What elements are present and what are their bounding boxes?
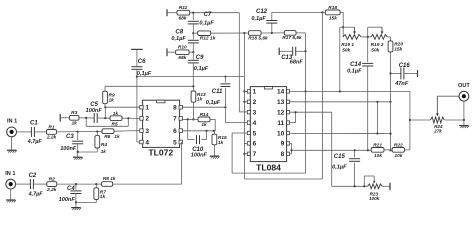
labels R5 xyxy=(112,111,119,128)
wire to TL084 pin6 xyxy=(244,142,247,144)
op-amp U2 TL084 xyxy=(247,87,289,173)
svg-text:100nF: 100nF xyxy=(59,197,76,203)
trimmer R23 wiper loop xyxy=(364,176,375,186)
wire TL072 pin6 to R15 xyxy=(182,130,215,132)
wire R9 bottom xyxy=(104,104,106,108)
svg-text:5: 5 xyxy=(253,130,257,137)
svg-text:R22: R22 xyxy=(394,142,403,148)
svg-text:R2: R2 xyxy=(49,177,55,183)
wire to TL084 pin2 xyxy=(244,101,247,103)
wire R14 right down to pin6 wire xyxy=(210,119,215,130)
svg-text:C7: C7 xyxy=(204,12,212,18)
wire R9 top to rail xyxy=(105,86,193,91)
svg-text:5: 5 xyxy=(173,139,177,146)
wire R23 row xyxy=(332,185,368,187)
wire R5 to node C and TL072 pin2 xyxy=(122,117,140,119)
potentiometer R19 2 wiper arrow xyxy=(381,27,384,34)
capacitor C8 xyxy=(171,29,198,43)
wire TL084 pin4 hook to V+ node xyxy=(225,107,247,122)
resistor R20 xyxy=(388,41,403,53)
wire C7 to R12 node xyxy=(192,24,194,34)
wire C3/R4 bottom to ground node xyxy=(77,148,98,153)
svg-text:C11: C11 xyxy=(212,89,223,95)
resistor R11 xyxy=(177,5,190,21)
capacitor C7 xyxy=(188,12,215,27)
resistor R10 xyxy=(176,45,190,61)
wire C13 node down to TL084 pin14 xyxy=(304,51,306,92)
svg-text:4,7µF: 4,7µF xyxy=(27,139,43,145)
svg-text:1k: 1k xyxy=(109,97,115,103)
wire TL072 pin8 (V+) to C11 node xyxy=(182,106,226,108)
resistor R5 xyxy=(110,116,122,121)
capacitor C4 xyxy=(59,184,82,203)
wire C12 top rail to R18 xyxy=(272,11,326,13)
wire C9 to rail y86 node xyxy=(192,63,194,86)
resistor R3 xyxy=(69,110,79,126)
svg-text:14: 14 xyxy=(277,89,285,96)
wire TL084 pin11 to pin12 wire xyxy=(290,111,297,123)
resistor R15 xyxy=(212,134,227,146)
resistor R9 xyxy=(103,91,115,104)
svg-text:R11: R11 xyxy=(179,5,188,11)
svg-text:C15: C15 xyxy=(334,154,346,160)
svg-text:100nF: 100nF xyxy=(86,108,103,114)
wire R13 bottom to pin7 wire xyxy=(192,102,194,120)
wire pin1 node to TL072 pin1 xyxy=(105,106,140,108)
svg-text:7: 7 xyxy=(173,116,177,123)
svg-text:1k: 1k xyxy=(201,122,207,128)
svg-text:6: 6 xyxy=(173,128,177,135)
svg-text:C2: C2 xyxy=(29,173,37,179)
svg-text:2,2k: 2,2k xyxy=(46,135,57,141)
wire loop B (pins 6,7 to top rail) xyxy=(244,12,322,179)
svg-text:R6: R6 xyxy=(104,134,110,140)
svg-text:1k: 1k xyxy=(113,111,119,117)
wire R19.2 wiper loop xyxy=(368,27,382,37)
capacitor C12 xyxy=(251,9,277,33)
svg-text:27k: 27k xyxy=(433,129,442,134)
capacitor C3 xyxy=(60,132,83,152)
svg-text:C5: C5 xyxy=(90,102,98,108)
svg-text:R21: R21 xyxy=(373,142,382,148)
wire to TL084 pin1 xyxy=(244,90,247,92)
svg-text:1k: 1k xyxy=(114,134,120,140)
ground (IN 1 B) xyxy=(6,189,16,203)
wire TL084 pin5 to loop A xyxy=(232,133,247,173)
svg-text:0,1µF: 0,1µF xyxy=(171,36,186,42)
svg-text:1k: 1k xyxy=(218,140,224,146)
wire V+ rail (C6 node to C11/TL084) xyxy=(137,76,245,78)
wire loop A (pin5 to pin14 node) xyxy=(232,91,305,173)
svg-text:68nF: 68nF xyxy=(290,60,304,66)
wire rect left vertical xyxy=(376,102,378,134)
wire T2 to R11 xyxy=(167,12,177,14)
wire TL084 pin14 to R19.1 vertical and R24 node xyxy=(290,90,410,92)
svg-text:0,1µF: 0,1µF xyxy=(251,16,266,22)
wire node M up to pin1 node xyxy=(104,106,106,118)
svg-text:R3: R3 xyxy=(71,110,77,116)
svg-text:R19 2: R19 2 xyxy=(371,42,384,48)
svg-text:100nF: 100nF xyxy=(60,146,77,152)
wire pin8/9 node to R21 xyxy=(292,149,372,151)
wire R21 to R22 xyxy=(384,149,392,151)
svg-text:R19 1: R19 1 xyxy=(341,42,354,48)
wire R11 bend down to TL084 pin3 xyxy=(239,13,247,112)
wire R2 to R8 (node with C4, R7) xyxy=(57,183,102,185)
potentiometer R19 1 wiper arrow xyxy=(353,27,356,34)
resistor R12 xyxy=(198,31,216,42)
wire bypass loop A-C xyxy=(86,118,128,126)
svg-text:TL072: TL072 xyxy=(148,148,173,158)
terminal (C13 left) xyxy=(278,48,280,55)
svg-text:0,1µF: 0,1µF xyxy=(332,165,347,171)
svg-text:R12 1k: R12 1k xyxy=(200,36,216,42)
capacitor C9 xyxy=(188,52,209,72)
wire to TL084 pin7 xyxy=(244,153,247,155)
svg-text:R18: R18 xyxy=(328,5,337,11)
resistor R13 xyxy=(191,91,206,102)
capacitor C10 (pin7 to pin6) xyxy=(188,119,208,158)
svg-text:4: 4 xyxy=(145,139,149,146)
wire R3 to node A xyxy=(79,117,94,119)
trimmer R23 xyxy=(368,184,383,201)
wire TL072 pin7 to R14 xyxy=(182,118,198,120)
ground (C3/R4) xyxy=(73,152,83,160)
resistor R14 xyxy=(198,112,210,128)
svg-text:68k: 68k xyxy=(178,16,186,22)
svg-text:6: 6 xyxy=(253,141,257,148)
labels R6 xyxy=(104,134,120,140)
resistor R1 xyxy=(46,124,57,140)
wire C2 to R2 xyxy=(33,183,46,185)
svg-text:3: 3 xyxy=(145,128,149,135)
svg-text:4: 4 xyxy=(253,120,257,127)
svg-text:0,1µF: 0,1µF xyxy=(194,66,209,72)
svg-text:0,1µF: 0,1µF xyxy=(206,100,221,106)
terminal (R10 input) xyxy=(166,48,168,56)
svg-text:7: 7 xyxy=(253,151,257,158)
svg-text:1: 1 xyxy=(145,105,149,112)
wire R17 to bend down xyxy=(296,33,307,52)
wire R16 to C12 node xyxy=(261,32,284,34)
wire R13 top to rail y86 xyxy=(192,85,194,91)
wire TL084 pin10 to rect node xyxy=(290,132,391,134)
svg-text:C4: C4 xyxy=(67,186,75,192)
svg-text:IN 1: IN 1 xyxy=(5,171,15,177)
svg-text:12: 12 xyxy=(277,110,285,117)
wire R20 down to R21/R22 junction xyxy=(389,52,391,151)
svg-text:OUT: OUT xyxy=(458,83,470,89)
wire R23 to terminal xyxy=(382,185,390,187)
wire R7 top xyxy=(95,184,97,188)
potentiometer R24 wiper from OUT xyxy=(436,96,459,116)
resistor R17 xyxy=(282,31,302,42)
wire R18 node down to TL084 pin14 wire xyxy=(340,27,343,91)
svg-text:C3: C3 xyxy=(66,134,74,140)
terminal (R3 input) xyxy=(59,114,61,122)
svg-text:3: 3 xyxy=(253,110,257,117)
wire R15 bottom to ground xyxy=(213,131,215,156)
capacitor C6 xyxy=(131,49,151,77)
capacitor C16 xyxy=(391,63,418,87)
connector IN 1 (channel A) xyxy=(7,119,18,137)
wire R12 node to R12 xyxy=(193,32,197,34)
svg-text:10k: 10k xyxy=(394,153,402,159)
svg-text:13: 13 xyxy=(277,99,285,106)
wire R6 to TL072 pin3 xyxy=(114,130,140,133)
wire C5 to node M xyxy=(97,117,110,119)
resistor R4 xyxy=(95,136,107,156)
ground (OUT) xyxy=(459,126,469,128)
wire R10 to C9 node xyxy=(189,51,193,53)
wire R19.1 to R19.2 junction xyxy=(361,36,371,38)
wire R4 top xyxy=(96,132,98,136)
svg-text:8: 8 xyxy=(281,151,285,158)
wire TL084 pin13 to R20 vertical xyxy=(290,101,392,103)
wire R18 down to R19.1 xyxy=(340,12,354,37)
potentiometer R24 xyxy=(430,117,444,134)
svg-text:8: 8 xyxy=(173,105,177,112)
resistor R6 xyxy=(102,129,114,134)
wire R8 to TL072 pin5 xyxy=(113,142,182,184)
resistor R16 xyxy=(248,31,268,42)
op-amp U1 TL072 xyxy=(140,100,183,157)
svg-text:R17 5,6k: R17 5,6k xyxy=(282,35,302,41)
svg-text:15k: 15k xyxy=(329,15,337,21)
potentiometer R19 1 xyxy=(341,35,361,54)
svg-text:C16: C16 xyxy=(399,63,411,69)
wire IN1a to C1 xyxy=(16,131,31,133)
resistor R7 xyxy=(94,188,106,200)
capacitor C11 xyxy=(206,76,231,108)
svg-text:C6: C6 xyxy=(138,59,146,65)
wire T3 to R10 xyxy=(167,51,176,53)
svg-text:68k: 68k xyxy=(178,55,186,61)
svg-text:R4: R4 xyxy=(101,142,107,148)
wire TL084 pin1 feedback vertical xyxy=(243,33,245,179)
svg-text:2: 2 xyxy=(253,99,257,106)
svg-text:1: 1 xyxy=(253,89,257,96)
svg-text:4,7µF: 4,7µF xyxy=(28,191,44,197)
resistor R21 xyxy=(371,142,384,159)
wire R1 to R6 (node with C3, R4) xyxy=(57,130,103,132)
wire C4/R7 bottom xyxy=(75,200,97,204)
svg-text:10k: 10k xyxy=(374,153,382,159)
svg-text:2,2k: 2,2k xyxy=(46,187,57,193)
resistor R22 xyxy=(392,142,404,159)
resistor R18 xyxy=(325,5,340,21)
capacitor C1 xyxy=(27,121,43,146)
capacitor C5 xyxy=(86,102,103,123)
wire IN1b to C2 xyxy=(15,183,30,185)
wire R24 to OUT ground xyxy=(444,101,465,125)
svg-text:10: 10 xyxy=(277,130,285,137)
svg-text:0,1µF: 0,1µF xyxy=(199,21,214,27)
svg-text:15k: 15k xyxy=(394,46,402,52)
connector IN 1 (channel B) xyxy=(5,171,15,189)
svg-text:TL084: TL084 xyxy=(256,163,281,173)
svg-text:R10: R10 xyxy=(178,45,187,51)
svg-text:0,1µF: 0,1µF xyxy=(347,69,362,75)
svg-text:1k: 1k xyxy=(72,121,78,127)
capacitor C2 xyxy=(28,173,44,197)
svg-text:50k: 50k xyxy=(342,47,350,53)
terminal (C16 right) xyxy=(417,70,419,77)
svg-text:47nF: 47nF xyxy=(394,81,409,87)
wire C6 down to TL072 pin4 xyxy=(136,69,140,142)
wire R12 to R16 xyxy=(211,32,249,34)
svg-text:9: 9 xyxy=(281,141,285,148)
capacitor C15 xyxy=(332,150,360,186)
svg-text:C8: C8 xyxy=(175,29,183,35)
svg-text:R16 5,6k: R16 5,6k xyxy=(248,35,268,41)
svg-text:R14: R14 xyxy=(200,112,209,118)
capacitor C14 xyxy=(347,37,373,150)
resistor R8 xyxy=(102,176,116,186)
capacitor C13 xyxy=(279,47,305,66)
ground (C4/R7) xyxy=(71,202,81,210)
terminal (C6 top bar) xyxy=(131,48,142,50)
wire C1 to R1 xyxy=(34,131,46,133)
svg-text:R1: R1 xyxy=(48,124,54,130)
svg-text:1k: 1k xyxy=(197,96,203,102)
svg-text:50k: 50k xyxy=(371,47,379,53)
wire T to R3 xyxy=(60,117,69,119)
wire R22 up to R24 node xyxy=(405,91,412,149)
svg-text:100k: 100k xyxy=(369,196,380,201)
terminal (R11 input) xyxy=(166,9,168,16)
svg-text:100nF: 100nF xyxy=(191,153,208,159)
potentiometer R19 2 xyxy=(371,35,388,54)
svg-text:1k: 1k xyxy=(101,149,107,155)
svg-text:R8 1k: R8 1k xyxy=(103,176,116,182)
svg-text:C12: C12 xyxy=(256,9,268,15)
svg-text:11: 11 xyxy=(277,120,284,127)
svg-text:1k: 1k xyxy=(100,194,106,200)
connector OUT xyxy=(458,83,470,101)
terminal (R23 right) xyxy=(389,183,391,190)
resistor R2 xyxy=(46,177,57,193)
wire R11 to bend (top rail left) xyxy=(190,12,240,14)
wire C8 to R10 node xyxy=(192,43,194,53)
ground (IN 1 A) xyxy=(7,137,17,153)
wire TL084 pins 8,9 join xyxy=(290,143,293,153)
svg-text:C1: C1 xyxy=(30,121,38,127)
wire R19.2 to R20 xyxy=(387,37,390,41)
svg-text:C9: C9 xyxy=(196,55,204,61)
ground (R15) xyxy=(210,156,220,158)
svg-text:2: 2 xyxy=(145,116,149,123)
wire R24 input xyxy=(410,119,431,121)
svg-text:C14: C14 xyxy=(350,62,362,68)
wire TL084 pin12 down to C15/R23 wire xyxy=(290,112,332,186)
svg-text:IN 1: IN 1 xyxy=(7,119,17,125)
